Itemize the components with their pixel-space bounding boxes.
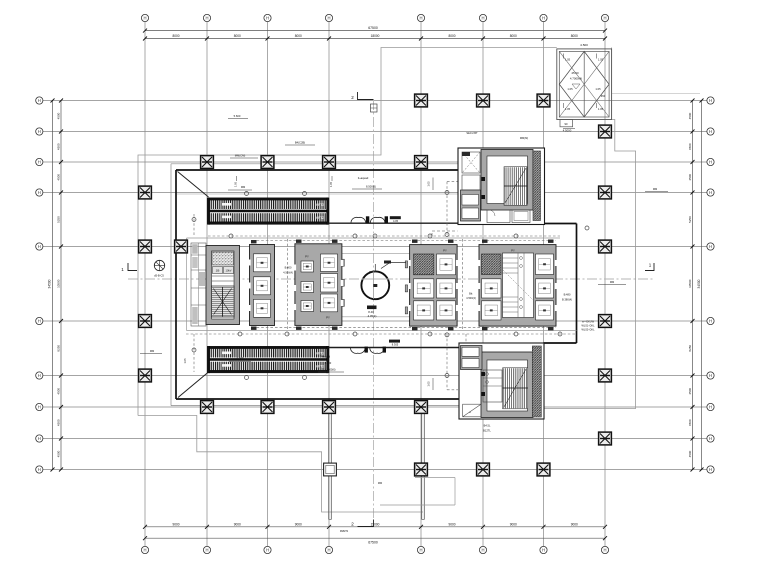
svg-text:8.500(6): 8.500(6) bbox=[366, 185, 376, 189]
svg-text:B4.5L: B4.5L bbox=[484, 424, 491, 428]
svg-text:67500: 67500 bbox=[368, 541, 378, 545]
svg-text:9000: 9000 bbox=[172, 522, 179, 526]
right segment dimensions bbox=[688, 99, 695, 472]
svg-text:5.5000(6): 5.5000(6) bbox=[324, 368, 335, 372]
svg-text:WLS1–DKL: WLS1–DKL bbox=[581, 325, 595, 328]
svg-text:4500: 4500 bbox=[688, 112, 692, 119]
svg-text:MM(M): MM(M) bbox=[520, 136, 528, 140]
central oculus circle bbox=[361, 261, 406, 318]
svg-text:34500: 34500 bbox=[697, 279, 701, 288]
svg-text:8250: 8250 bbox=[688, 345, 692, 352]
axis bubbles left bbox=[36, 97, 43, 473]
svg-text:8000: 8000 bbox=[295, 34, 302, 38]
stair/elevator block bottom-right bbox=[459, 343, 544, 419]
top segment dimensions bbox=[143, 34, 607, 40]
svg-text:15000: 15000 bbox=[371, 522, 380, 526]
svg-text:HFT2: HFT2 bbox=[316, 216, 324, 220]
svg-text:B.380(4): B.380(4) bbox=[562, 298, 572, 302]
svg-text:H: H bbox=[709, 436, 712, 441]
open column at bay bbox=[324, 463, 337, 476]
svg-text:d5-B-C5: d5-B-C5 bbox=[154, 274, 164, 278]
svg-text:H: H bbox=[327, 548, 330, 553]
svg-text:PY: PY bbox=[443, 249, 447, 253]
section marker 2 top bbox=[351, 92, 373, 100]
svg-text:9000: 9000 bbox=[510, 522, 517, 526]
svg-text:1.05: 1.05 bbox=[183, 358, 187, 364]
axis bubbles top bbox=[141, 14, 608, 21]
svg-text:8.305: 8.305 bbox=[392, 342, 399, 346]
svg-text:H: H bbox=[419, 548, 422, 553]
svg-text:H: H bbox=[481, 548, 484, 553]
svg-text:10500: 10500 bbox=[688, 279, 692, 288]
svg-text:4.500: 4.500 bbox=[580, 43, 588, 47]
svg-text:1.05: 1.05 bbox=[565, 58, 571, 62]
bottom overall dimension 67500 bbox=[143, 536, 607, 544]
svg-text:H: H bbox=[709, 160, 712, 165]
svg-text:MM: MM bbox=[241, 185, 245, 189]
fire shutter dashed lines bbox=[186, 182, 577, 390]
svg-text:4.5000: 4.5000 bbox=[563, 129, 572, 133]
svg-text:5.600: 5.600 bbox=[234, 114, 241, 118]
svg-text:H: H bbox=[266, 548, 269, 553]
svg-text:8000: 8000 bbox=[234, 34, 241, 38]
svg-text:H: H bbox=[38, 373, 41, 378]
lobby door jambs bbox=[342, 259, 408, 314]
svg-text:4.7000(4): 4.7000(4) bbox=[570, 77, 582, 81]
svg-text:1.05: 1.05 bbox=[598, 107, 604, 111]
svg-text:Bk:: Bk: bbox=[469, 292, 473, 296]
svg-text:4500: 4500 bbox=[56, 419, 60, 426]
drain symbol bbox=[154, 260, 165, 277]
annotation texts bbox=[140, 94, 668, 533]
elevator bank B bbox=[295, 244, 342, 326]
svg-text:H: H bbox=[266, 16, 269, 21]
axis bubbles bottom bbox=[141, 546, 608, 553]
svg-text:H: H bbox=[542, 16, 545, 21]
shaft vent marks bbox=[251, 240, 554, 331]
svg-text:4500: 4500 bbox=[688, 143, 692, 150]
svg-text:4500: 4500 bbox=[688, 174, 692, 181]
upper folding partition arcs bbox=[329, 216, 459, 223]
escalator bank lower bbox=[207, 346, 329, 373]
svg-text:MM: MM bbox=[653, 187, 657, 191]
lower folding partition arcs bbox=[329, 340, 460, 354]
svg-text:1.05: 1.05 bbox=[427, 381, 431, 387]
top overall dimension 67500 bbox=[143, 26, 607, 32]
svg-text:PY: PY bbox=[305, 255, 309, 259]
escalator bank upper bbox=[207, 198, 329, 225]
svg-text:H: H bbox=[603, 548, 606, 553]
svg-text:1.05: 1.05 bbox=[234, 181, 238, 187]
svg-text:w—DKUW: w—DKUW bbox=[582, 321, 595, 324]
svg-text:H: H bbox=[38, 436, 41, 441]
svg-text:H: H bbox=[603, 16, 606, 21]
junction box symbol bbox=[371, 104, 378, 112]
svg-text:H: H bbox=[143, 16, 146, 21]
svg-text:450: 450 bbox=[601, 94, 606, 98]
svg-text:H: H bbox=[38, 190, 41, 195]
svg-text:H: H bbox=[38, 98, 41, 103]
svg-text:H: H bbox=[481, 16, 484, 21]
svg-text:9000: 9000 bbox=[234, 522, 241, 526]
svg-text:4500: 4500 bbox=[56, 388, 60, 395]
svg-text:B:480: B:480 bbox=[564, 293, 571, 297]
svg-text:67500: 67500 bbox=[368, 26, 378, 30]
svg-text:H: H bbox=[38, 467, 41, 472]
svg-text:1.05: 1.05 bbox=[598, 58, 604, 62]
elevator bank A bbox=[250, 245, 275, 326]
section line 2-2 bbox=[373, 100, 375, 520]
svg-text:4.05: 4.05 bbox=[393, 219, 399, 223]
svg-text:H: H bbox=[709, 244, 712, 249]
svg-text:8000: 8000 bbox=[571, 34, 578, 38]
section line 1-1 bbox=[128, 278, 654, 280]
svg-text:5250: 5250 bbox=[56, 216, 60, 223]
svg-text:1.05: 1.05 bbox=[595, 87, 601, 91]
section marker 1 right bbox=[645, 263, 654, 271]
svg-text:H: H bbox=[419, 16, 422, 21]
svg-text:9000: 9000 bbox=[571, 522, 578, 526]
svg-text:1.05: 1.05 bbox=[565, 107, 571, 111]
svg-text:H: H bbox=[709, 98, 712, 103]
elevator bank C bbox=[410, 245, 458, 327]
svg-text:1.05: 1.05 bbox=[427, 181, 431, 187]
grid vertical axis lines bbox=[145, 22, 605, 547]
axis bubbles right bbox=[707, 97, 714, 473]
shutter node circles bbox=[192, 191, 589, 380]
skylight opening bbox=[557, 43, 612, 132]
svg-text:4500: 4500 bbox=[688, 419, 692, 426]
svg-text:H: H bbox=[709, 405, 712, 410]
svg-text:1B: 1B bbox=[216, 268, 220, 272]
svg-text:9000: 9000 bbox=[448, 522, 455, 526]
svg-text:90: 90 bbox=[565, 122, 568, 126]
svg-text:3+aquad: 3+aquad bbox=[320, 355, 331, 359]
core corridor boundary bbox=[187, 238, 577, 331]
svg-text:9000: 9000 bbox=[295, 522, 302, 526]
svg-text:3+aquad: 3+aquad bbox=[358, 176, 369, 180]
svg-text:8000: 8000 bbox=[510, 34, 517, 38]
bottom segment dimensions bbox=[143, 522, 607, 528]
svg-text:H: H bbox=[38, 129, 41, 134]
svg-text:0.600: 0.600 bbox=[237, 356, 244, 360]
svg-text:4500: 4500 bbox=[56, 143, 60, 150]
svg-text:H: H bbox=[38, 244, 41, 249]
svg-text:4500: 4500 bbox=[56, 450, 60, 457]
small vertical dims bbox=[183, 176, 433, 390]
svg-text:4.500(4): 4.500(4) bbox=[466, 296, 476, 300]
svg-text:B:400: B:400 bbox=[285, 266, 292, 270]
stair S1 bbox=[212, 286, 235, 317]
section marker 1 left bbox=[121, 263, 137, 272]
svg-text:45.00: 45.00 bbox=[571, 71, 579, 75]
bottom bay double wall lines bbox=[329, 408, 425, 520]
left overall dimension bbox=[48, 99, 55, 472]
svg-text:1.05: 1.05 bbox=[329, 181, 333, 187]
grid horizontal axis lines bbox=[43, 101, 707, 470]
svg-text:MM(CM): MM(CM) bbox=[235, 154, 246, 158]
svg-text:H: H bbox=[709, 190, 712, 195]
svg-text:H: H bbox=[143, 548, 146, 553]
svg-text:5250: 5250 bbox=[688, 216, 692, 223]
svg-text:B4(C2B): B4(C2B) bbox=[295, 141, 305, 145]
svg-text:4500: 4500 bbox=[56, 174, 60, 181]
svg-text:HFT2: HFT2 bbox=[316, 365, 324, 369]
svg-text:10500: 10500 bbox=[56, 279, 60, 288]
elevator door openings bbox=[248, 260, 557, 312]
svg-text:SECU BT: SECU BT bbox=[466, 131, 478, 135]
svg-text:8.400: 8.400 bbox=[325, 361, 332, 365]
svg-text:MM: MM bbox=[378, 482, 382, 485]
svg-text:H: H bbox=[542, 548, 545, 553]
svg-text:MM: MM bbox=[150, 349, 154, 353]
svg-text:H: H bbox=[38, 160, 41, 165]
svg-text:PY: PY bbox=[326, 316, 330, 320]
svg-text:H: H bbox=[38, 319, 41, 324]
svg-text:18000: 18000 bbox=[371, 34, 380, 38]
svg-text:4500: 4500 bbox=[688, 450, 692, 457]
svg-text:4.05(4): 4.05(4) bbox=[368, 314, 377, 318]
building envelope outline bbox=[138, 48, 636, 513]
svg-text:8000: 8000 bbox=[172, 34, 179, 38]
equipment room block bbox=[191, 243, 240, 326]
svg-text:34500: 34500 bbox=[48, 279, 52, 288]
svg-text:WLS3–DKL: WLS3–DKL bbox=[581, 329, 595, 332]
svg-text:4.500(4): 4.500(4) bbox=[283, 271, 293, 275]
svg-text:PY: PY bbox=[511, 249, 515, 253]
section marker 2 bottom bbox=[351, 520, 373, 527]
svg-text:4500: 4500 bbox=[56, 112, 60, 119]
svg-text:10kV: 10kV bbox=[226, 268, 232, 272]
svg-text:H: H bbox=[709, 129, 712, 134]
stair/elevator block top-right bbox=[458, 148, 545, 225]
structural columns bbox=[139, 94, 612, 476]
svg-text:bMM?b: bMM?b bbox=[340, 530, 349, 533]
svg-text:H: H bbox=[709, 319, 712, 324]
svg-text:MM: MM bbox=[610, 280, 614, 284]
right overall dimension bbox=[697, 99, 704, 472]
svg-text:1.05: 1.05 bbox=[567, 87, 573, 91]
svg-text:H: H bbox=[205, 16, 208, 21]
svg-text:4500: 4500 bbox=[688, 388, 692, 395]
svg-text:8250: 8250 bbox=[56, 345, 60, 352]
svg-text:8000: 8000 bbox=[448, 34, 455, 38]
svg-text:HFT3: HFT3 bbox=[316, 203, 324, 207]
svg-text:H: H bbox=[327, 16, 330, 21]
svg-text:H: H bbox=[38, 405, 41, 410]
svg-text:H: H bbox=[709, 373, 712, 378]
svg-text:H: H bbox=[709, 467, 712, 472]
heavy floor outline bbox=[171, 164, 577, 406]
elevator bank D with toilets bbox=[479, 245, 556, 327]
canopy step lines bbox=[171, 94, 700, 506]
left segment dimensions bbox=[56, 99, 63, 472]
svg-text:H: H bbox=[205, 548, 208, 553]
svg-text:B12TL: B12TL bbox=[483, 429, 491, 433]
